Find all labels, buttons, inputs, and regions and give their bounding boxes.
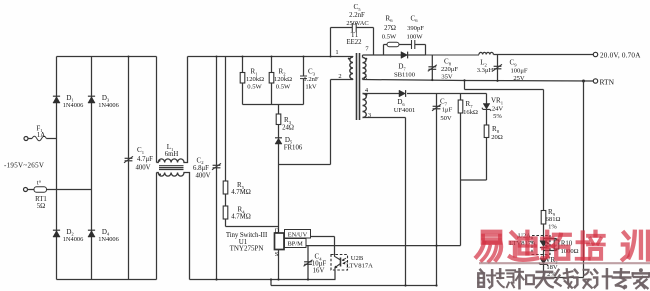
svg-text:0.5W: 0.5W [247, 84, 262, 91]
svg-text:1N4006: 1N4006 [63, 102, 84, 109]
svg-text:4.7MΩ: 4.7MΩ [231, 189, 251, 196]
svg-text:120kΩ: 120kΩ [274, 76, 292, 83]
svg-text:120kΩ: 120kΩ [246, 76, 264, 83]
svg-text:390pF: 390pF [407, 25, 424, 32]
svg-text:24Ω: 24Ω [282, 125, 294, 132]
svg-text:RT1: RT1 [35, 196, 47, 203]
svg-text:BP/M: BP/M [288, 240, 304, 247]
svg-text:10μF: 10μF [312, 261, 326, 268]
svg-text:250VAC: 250VAC [346, 20, 368, 27]
svg-text:400V: 400V [135, 164, 150, 171]
svg-text:50V: 50V [440, 115, 452, 122]
svg-text:1%: 1% [548, 223, 557, 230]
svg-text:2: 2 [338, 73, 341, 80]
svg-text:220μF: 220μF [441, 66, 458, 73]
svg-text:D: D [275, 228, 280, 235]
svg-text:0.5W: 0.5W [276, 84, 291, 91]
svg-text:6.8μF: 6.8μF [193, 165, 209, 172]
svg-text:1N4006: 1N4006 [98, 102, 119, 109]
svg-text:T1: T1 [351, 32, 359, 39]
svg-text:1N4006: 1N4006 [98, 236, 119, 243]
svg-text:1A: 1A [37, 132, 45, 139]
svg-text:1kV: 1kV [305, 84, 317, 91]
svg-text:4.7MΩ: 4.7MΩ [231, 214, 251, 221]
svg-text:LTV817A: LTV817A [346, 262, 373, 269]
svg-text:100μF: 100μF [510, 67, 527, 74]
svg-text:6mH: 6mH [165, 151, 179, 158]
svg-text:2.2nF: 2.2nF [349, 12, 365, 19]
svg-text:U2B: U2B [351, 255, 364, 262]
svg-text:24V: 24V [492, 105, 504, 112]
svg-text:0.5W: 0.5W [382, 33, 397, 40]
svg-text:UF4001: UF4001 [394, 107, 416, 114]
svg-text:EE22: EE22 [346, 39, 362, 46]
svg-text:-195V~265V: -195V~265V [4, 161, 44, 169]
svg-text:1N4006: 1N4006 [63, 236, 84, 243]
svg-text:16kΩ: 16kΩ [463, 109, 478, 116]
svg-text:SB1100: SB1100 [394, 71, 416, 78]
svg-text:TNY275PN: TNY275PN [230, 245, 264, 253]
svg-text:400V: 400V [195, 173, 210, 180]
svg-text:t°: t° [37, 179, 42, 186]
svg-text:18V: 18V [546, 264, 558, 271]
svg-text:16V: 16V [313, 268, 325, 275]
svg-text:FR106: FR106 [284, 144, 303, 151]
svg-text:EN/UV: EN/UV [288, 231, 308, 238]
svg-text:35V: 35V [441, 73, 453, 80]
svg-text:3: 3 [368, 112, 371, 119]
svg-text:20Ω: 20Ω [491, 134, 503, 141]
svg-text:1.2nF: 1.2nF [303, 76, 319, 83]
svg-text:1μF: 1μF [442, 107, 453, 114]
svg-text:27Ω: 27Ω [384, 25, 396, 32]
svg-text:RTN: RTN [600, 77, 615, 86]
svg-text:1: 1 [335, 49, 338, 56]
svg-text:5Ω: 5Ω [37, 203, 45, 210]
svg-text:20.0V, 0.70A: 20.0V, 0.70A [600, 52, 641, 60]
svg-text:5%: 5% [493, 113, 502, 120]
svg-text:4.7μF: 4.7μF [137, 156, 153, 163]
svg-text:100W: 100W [406, 33, 423, 40]
svg-text:681Ω: 681Ω [546, 216, 561, 223]
svg-text:3.3μH: 3.3μH [477, 67, 494, 74]
